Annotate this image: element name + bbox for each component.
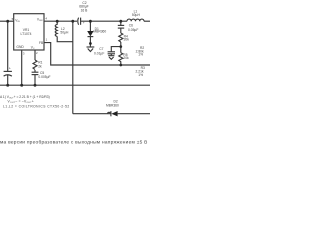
svg-text:1%: 1% xyxy=(138,53,143,57)
svg-text:C7: C7 xyxy=(99,47,103,51)
inductor L2 xyxy=(55,21,57,36)
wire C7 branch xyxy=(111,47,121,52)
svg-text:ма версии преобразователе с вы: ма версии преобразователе с выходным нап… xyxy=(0,139,148,145)
wire C5 to ground bus xyxy=(34,75,36,86)
wire D1 cathode to ground xyxy=(89,37,91,47)
node vertical tap on Vsw rail xyxy=(71,20,74,23)
svg-text:VOUT– = –VOUT+: VOUT– = –VOUT+ xyxy=(8,100,35,105)
wire C1 upper leg xyxy=(7,21,9,71)
wire R4 to R5 xyxy=(120,42,122,53)
wire C7 to its ground xyxy=(110,54,112,56)
svg-text:2k: 2k xyxy=(38,64,42,68)
svg-text:20k: 20k xyxy=(123,56,129,60)
svg-text:4: 4 xyxy=(45,17,47,21)
svg-text:0.05µF: 0.05µF xyxy=(128,28,138,32)
wire C6 to R4 xyxy=(120,28,122,33)
ground below C7 xyxy=(108,56,114,60)
wire lower rail right of D2 xyxy=(118,113,150,115)
resistor R1 xyxy=(33,60,37,70)
node C1 on ground bus xyxy=(6,84,9,87)
node L2 tap on Vsw rail xyxy=(56,20,59,23)
svg-text:VC: VC xyxy=(31,45,35,50)
svg-text:LT1074: LT1074 xyxy=(21,32,32,36)
capacitor C1 xyxy=(4,71,12,76)
capacitor C7 xyxy=(108,52,115,54)
wire hop bump left of D2 xyxy=(108,112,111,113)
node C5 leg on ground bus xyxy=(34,84,37,87)
svg-text:1%: 1% xyxy=(138,73,143,77)
svg-text:0.01µF: 0.01µF xyxy=(94,51,104,55)
svg-text:+: + xyxy=(9,67,11,71)
wire C1 lower leg xyxy=(7,75,9,85)
resistor R4 xyxy=(119,33,123,42)
wire vertical from rail through bus to lower rail xyxy=(72,21,74,114)
wire rail node to C6 xyxy=(120,21,122,25)
node junction below D1 xyxy=(89,42,92,45)
wire rail after L1 to right edge xyxy=(144,20,150,22)
diode D2 xyxy=(111,111,118,116)
ground bus xyxy=(0,84,150,86)
capacitor C2 xyxy=(78,18,81,25)
svg-text:FB: FB xyxy=(39,41,44,45)
svg-text:50µH: 50µH xyxy=(132,13,141,17)
svg-text:MBR360: MBR360 xyxy=(106,104,119,108)
svg-text:1: 1 xyxy=(46,38,48,42)
svg-text:L1,L2 = COILTRONICS CTX50-2-52: L1,L2 = COILTRONICS CTX50-2-52 xyxy=(3,105,70,109)
svg-text:+: + xyxy=(83,21,85,25)
wire R5 to feedback line xyxy=(120,61,122,65)
wire D1 anode leg xyxy=(89,21,91,31)
wire lower rail left of D2 xyxy=(73,113,111,115)
regulator VR1 LT1074 box xyxy=(14,14,44,50)
wire FB pin to feedback line xyxy=(44,43,150,65)
svg-text:VIN: VIN xyxy=(15,18,20,23)
svg-text:C6: C6 xyxy=(129,24,133,28)
svg-text:50µH: 50µH xyxy=(60,31,69,35)
svg-text:3: 3 xyxy=(23,52,25,56)
ground below D1 xyxy=(87,47,95,52)
svg-text:0.005µF: 0.005µF xyxy=(38,75,50,79)
wire input rail from left edge to Vin pin xyxy=(0,20,14,22)
capacitor C6 xyxy=(118,25,124,28)
resistor R5 xyxy=(119,53,123,62)
wire Vsw rail from box to C2 xyxy=(44,20,77,22)
wire R1 to C5 xyxy=(34,70,36,72)
capacitor C5 xyxy=(32,72,39,74)
svg-text:20k: 20k xyxy=(124,38,130,42)
svg-text:VSW: VSW xyxy=(37,17,44,22)
node C7 branch junction xyxy=(119,45,122,48)
node C1 tap on input rail xyxy=(6,20,9,23)
wire rail from C2 to L1 xyxy=(81,20,127,22)
node C6 chain tap on rail xyxy=(119,20,122,23)
svg-text:16 B: 16 B xyxy=(81,8,89,12)
wire Vc pin leg to R1 xyxy=(34,50,36,60)
wire GND pin leg xyxy=(21,50,23,85)
svg-text:MBR360: MBR360 xyxy=(93,30,106,34)
node GND leg on ground bus xyxy=(20,84,23,87)
svg-text:GND: GND xyxy=(16,45,24,49)
diode D1 xyxy=(87,31,93,37)
node D1 tap on rail xyxy=(89,20,92,23)
wire L2 bottom jog xyxy=(57,37,73,42)
inductor L1 xyxy=(127,19,144,21)
node R5 on feedback line xyxy=(119,64,122,67)
svg-text:2: 2 xyxy=(36,51,38,55)
